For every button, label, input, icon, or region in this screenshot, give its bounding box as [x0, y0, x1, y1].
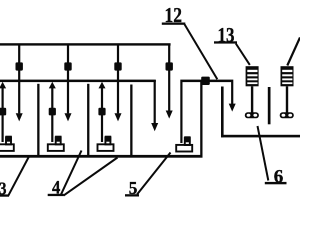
valve on cell riser 2 — [49, 108, 56, 116]
heating coil 13b — [281, 66, 294, 86]
wire pipe segment to vessel 6 — [180, 80, 233, 83]
leader line for label 12 — [185, 24, 218, 79]
cell riser 3 (up arrow + valve) — [101, 85, 103, 143]
underline of label 5 — [125, 194, 139, 196]
arrowhead down on drop 3 — [115, 113, 122, 121]
underline of label 6 — [265, 182, 287, 184]
wire segment right corner drop into vessel 6 — [231, 82, 233, 104]
wire drop line 3 from header1 — [117, 45, 119, 113]
wire header pipe 1 (top manifold) — [0, 43, 171, 45]
heater symbol in tank 2 — [48, 136, 64, 151]
tank 3 right wall — [130, 85, 132, 158]
wire drop from segment left end to heater 4 — [180, 82, 182, 143]
arrowhead down on header2 end drop — [151, 123, 158, 131]
leader line a for label 4 — [61, 151, 82, 196]
wire drop line 1 from header1 — [18, 45, 20, 113]
heater symbol in tank 4 — [176, 136, 192, 151]
stirrer shaft 2 — [286, 86, 288, 113]
tank 4 right wall — [200, 82, 202, 158]
heating coil 13a — [246, 66, 259, 86]
valve on cell riser 1 — [0, 108, 6, 116]
underline of label 12 — [162, 23, 186, 25]
cell riser 2 (up arrow + valve) — [51, 85, 53, 143]
valve on cell riser 3 — [98, 108, 105, 116]
vessel 6 left wall — [221, 87, 224, 138]
leader line b for label 4 — [64, 158, 118, 196]
tanks bottom line — [0, 155, 203, 158]
leader line for label 6 — [258, 126, 269, 181]
arrowhead down on drop 4 — [166, 111, 173, 119]
underline of label 4 — [48, 194, 64, 196]
arrowhead up cell 3 — [99, 82, 106, 89]
tank shared wall 2|3 — [87, 84, 89, 157]
wire drop line 4 from header1 end — [168, 45, 170, 111]
arrowhead down on drop 1 — [16, 113, 23, 121]
wire header2 end drop — [154, 80, 156, 123]
svg-text:6: 6 — [274, 167, 284, 187]
tank shared wall 1|2 — [37, 84, 39, 157]
baffle inside vessel 6 — [268, 87, 271, 124]
valve on drop 2 — [64, 62, 71, 70]
heater symbol in tank 1 — [0, 136, 14, 151]
arrowhead down on drop 2 — [65, 113, 72, 121]
valve on drop 3 — [114, 62, 121, 70]
arrowhead up cell 2 — [49, 82, 56, 89]
wire drop line 2 from header1 — [67, 45, 69, 113]
stirrer impeller 1 — [245, 112, 259, 118]
wire header pipe 2 (lower manifold) — [0, 80, 156, 83]
heater symbol in tank 3 — [98, 136, 114, 151]
leader line for label 3 — [8, 156, 30, 197]
underline of label 3 — [0, 194, 9, 196]
stirrer impeller 2 — [280, 112, 294, 118]
vessel 6 bottom — [221, 135, 300, 138]
leader line for label 5 — [137, 153, 171, 195]
arrowhead up cell 1 — [0, 82, 6, 89]
valve on drop 4 — [166, 62, 173, 70]
valve 12 on segment pipe — [201, 77, 210, 85]
valve on drop 1 — [16, 62, 23, 70]
underline of label 13 — [214, 41, 237, 43]
leader line from right edge to coil b — [287, 38, 300, 66]
cell riser 1 (up arrow + valve) — [2, 85, 4, 143]
arrowhead down into vessel 6 — [229, 104, 236, 112]
stirrer shaft 1 — [251, 86, 253, 113]
leader line for label 13 to coil a — [236, 44, 250, 65]
